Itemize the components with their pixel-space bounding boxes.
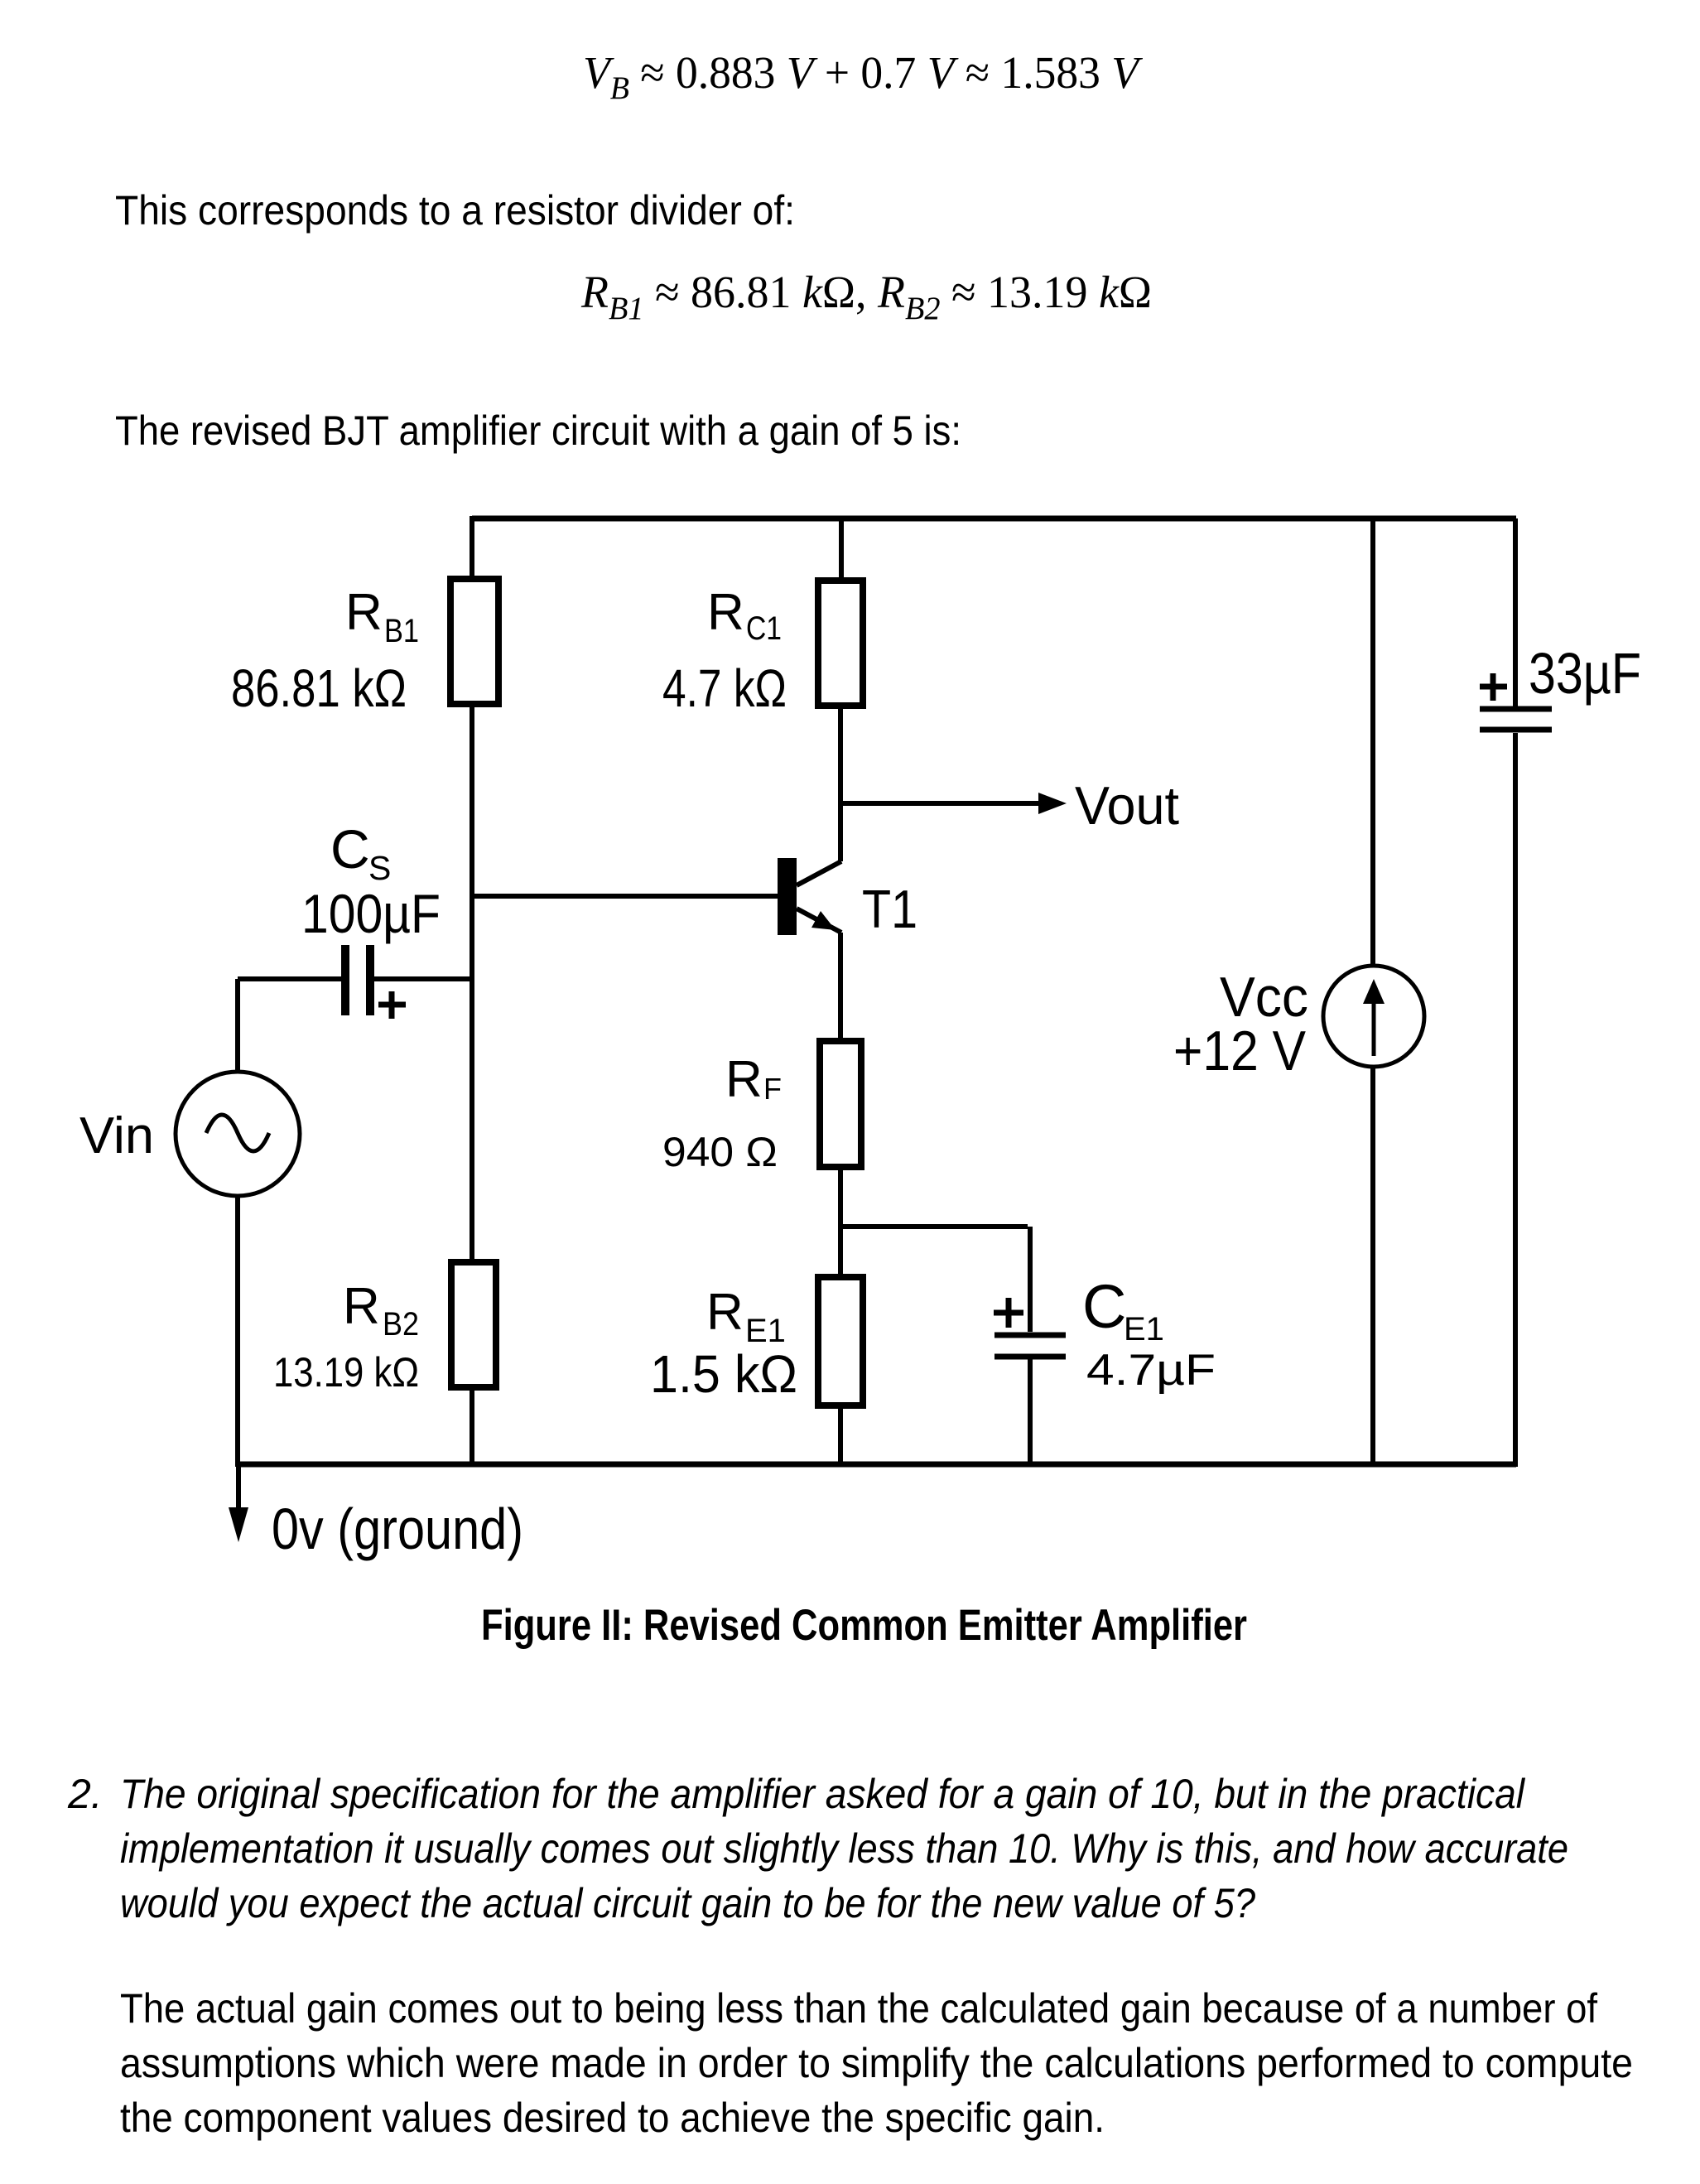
svg-text:0v (ground): 0v (ground) — [272, 1497, 523, 1561]
svg-text:B2: B2 — [383, 1306, 419, 1343]
svg-text:E1: E1 — [1124, 1311, 1164, 1348]
svg-text:The revised BJT amplifier circ: The revised BJT amplifier circuit with a… — [115, 407, 961, 454]
svg-text:940 Ω: 940 Ω — [662, 1129, 778, 1175]
svg-text:Vout: Vout — [1075, 775, 1179, 836]
svg-text:4.7µF: 4.7µF — [1086, 1346, 1216, 1395]
svg-text:F: F — [763, 1072, 782, 1106]
svg-text:C: C — [1082, 1272, 1126, 1341]
svg-text:This corresponds to a resistor: This corresponds to a resistor divider o… — [115, 187, 795, 234]
svg-text:T1: T1 — [862, 879, 917, 939]
svg-text:implementation it usually come: implementation it usually comes out slig… — [120, 1825, 1568, 1872]
svg-text:C1: C1 — [746, 610, 782, 647]
svg-text:The original specification for: The original specification for the ampli… — [120, 1771, 1526, 1817]
svg-text:100µF: 100µF — [301, 883, 441, 944]
svg-text:+12 V: +12 V — [1173, 1020, 1307, 1082]
svg-text:VB ≈ 0.883 V + 0.7 V ≈ 1.583 V: VB ≈ 0.883 V + 0.7 V ≈ 1.583 V — [583, 47, 1143, 106]
svg-text:1.5 kΩ: 1.5 kΩ — [650, 1344, 797, 1404]
svg-text:Figure II: Revised Common Emit: Figure II: Revised Common Emitter Amplif… — [481, 1601, 1247, 1650]
svg-text:R: R — [706, 1284, 744, 1341]
svg-text:assumptions which were made in: assumptions which were made in order to … — [120, 2040, 1633, 2086]
svg-text:R: R — [707, 584, 744, 641]
svg-text:B1: B1 — [384, 613, 419, 649]
svg-text:4.7 kΩ: 4.7 kΩ — [662, 658, 787, 718]
svg-text:Vin: Vin — [79, 1107, 154, 1164]
svg-text:2.: 2. — [67, 1771, 103, 1817]
svg-text:33µF: 33µF — [1529, 641, 1641, 706]
svg-text:R: R — [343, 1278, 380, 1335]
svg-text:RB1 ≈ 86.81 kΩ, RB2 ≈ 13.19 kΩ: RB1 ≈ 86.81 kΩ, RB2 ≈ 13.19 kΩ — [580, 267, 1152, 326]
svg-text:86.81 kΩ: 86.81 kΩ — [231, 658, 407, 718]
svg-text:R: R — [725, 1051, 763, 1108]
svg-text:R: R — [345, 584, 383, 641]
svg-text:C: C — [330, 818, 370, 880]
svg-text:the component values desired t: the component values desired to achieve … — [120, 2095, 1105, 2141]
svg-text:13.19 kΩ: 13.19 kΩ — [273, 1349, 419, 1396]
svg-text:would you expect the actual ci: would you expect the actual circuit gain… — [120, 1880, 1255, 1926]
svg-text:S: S — [368, 849, 391, 887]
svg-text:The actual gain comes out to b: The actual gain comes out to being less … — [120, 1985, 1597, 2032]
